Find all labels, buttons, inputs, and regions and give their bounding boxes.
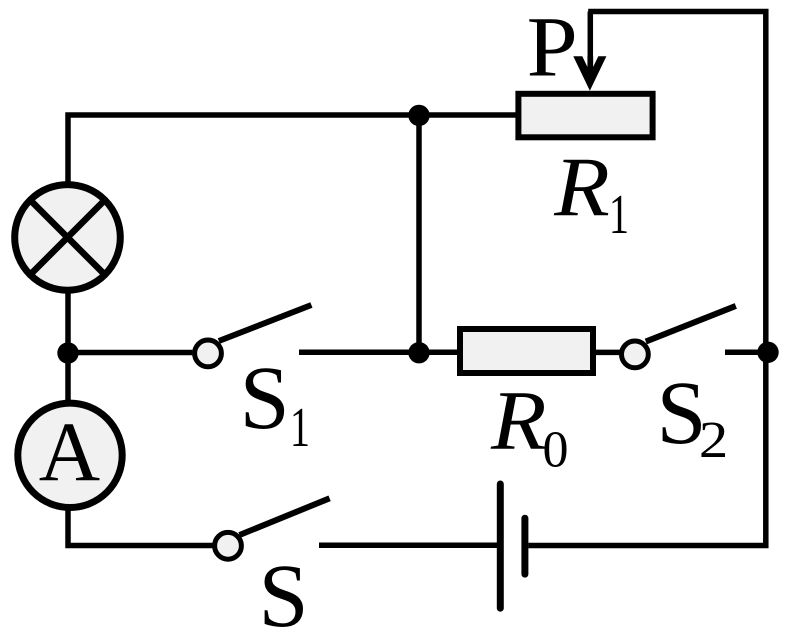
- svg-text:2: 2: [699, 412, 728, 469]
- svg-text:1: 1: [290, 397, 310, 459]
- svg-text:0: 0: [543, 421, 569, 478]
- svg-text:P: P: [527, 0, 578, 95]
- svg-text:S: S: [240, 349, 290, 448]
- svg-text:R: R: [490, 375, 547, 469]
- svg-text:A: A: [39, 406, 100, 500]
- svg-text:R: R: [553, 141, 610, 235]
- svg-text:S: S: [258, 547, 308, 633]
- svg-text:1: 1: [609, 184, 629, 246]
